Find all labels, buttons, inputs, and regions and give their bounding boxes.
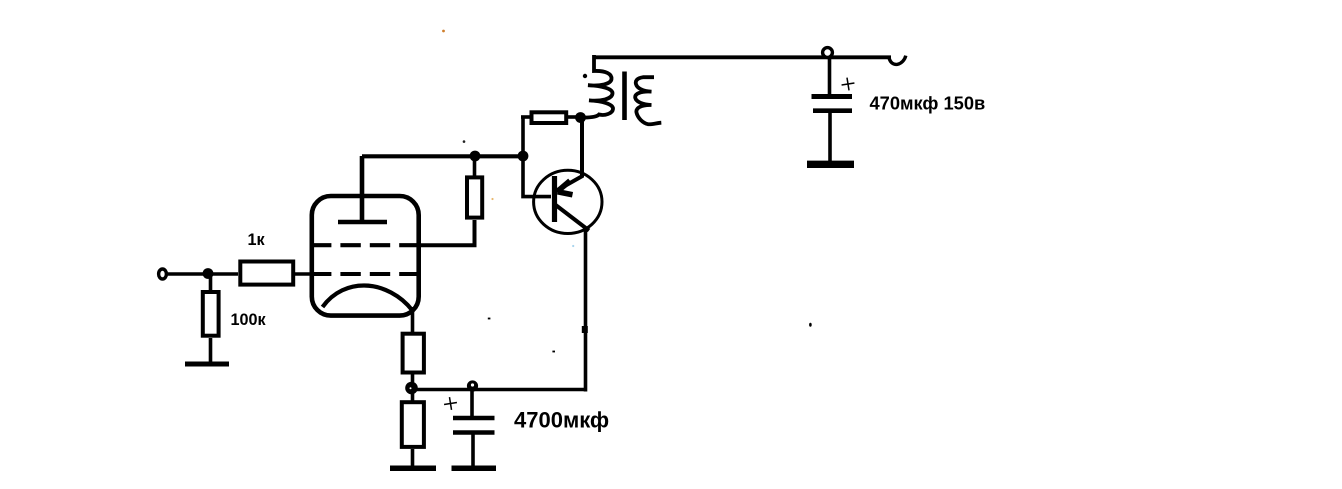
resistor R2 100k — [203, 292, 219, 336]
wire node C down to base — [523, 154, 551, 197]
collector wire blob — [582, 326, 588, 333]
node A (input junction) — [203, 268, 214, 279]
wire node A down to R2 — [209, 274, 213, 291]
capacitor C1 top plate — [812, 94, 853, 99]
speck mid — [463, 140, 466, 143]
wire C2 to ground — [471, 434, 475, 466]
wire node B down to R5 — [473, 156, 477, 176]
transistor Q1 emitter arrow — [559, 181, 571, 191]
svg-text:4700мкф: 4700мкф — [514, 408, 609, 433]
speck faint orange — [491, 198, 493, 200]
transistor Q1 circle — [534, 170, 602, 233]
wire node C up to R6 — [521, 117, 525, 156]
wire R6 right lead — [568, 115, 578, 119]
wire node G down to C1 — [828, 57, 832, 95]
node B (anode junction) — [470, 151, 481, 162]
speck orange top — [442, 30, 445, 33]
wire R4 to ground — [411, 449, 415, 466]
resistor R4 — [402, 402, 424, 447]
wire node F down to C2 — [470, 391, 474, 417]
tube cathode arc — [323, 286, 413, 311]
ground GND1 — [185, 362, 229, 367]
wire anode to node B — [362, 154, 523, 158]
node E (cathode junction) — [405, 382, 418, 395]
wire R1 to tube grid — [295, 272, 314, 276]
wire end hook — [889, 56, 906, 65]
node D (emitter/primary junction) — [575, 112, 586, 123]
wire collector down — [584, 228, 588, 392]
wire R3 to node E — [411, 374, 415, 384]
tube anode plate — [338, 220, 387, 225]
wire C1 to ground — [828, 113, 832, 161]
tube grid 1 (dashed) — [311, 272, 420, 276]
capacitor C2 bottom plate — [453, 430, 495, 434]
transformer T1 core — [622, 72, 627, 121]
wire node E down to R4 — [411, 392, 415, 401]
transistor Q1 collector line — [555, 205, 589, 231]
speck right — [809, 323, 812, 327]
svg-text:1к: 1к — [248, 231, 266, 249]
plus sign C2 — [443, 396, 458, 411]
tube cathode lead — [411, 307, 415, 332]
node C (base branch junction) — [518, 151, 529, 162]
node F (cap C2 junction) — [467, 380, 478, 391]
tube anode lead — [360, 156, 365, 222]
wire input to R1 — [167, 272, 238, 276]
terminal node G (cap C1 tap) — [823, 48, 833, 58]
ground GND2 — [390, 465, 436, 471]
wire R2 to ground — [209, 338, 213, 362]
vacuum tube V1 envelope — [312, 196, 419, 316]
ground GND3 — [452, 465, 497, 471]
speck dash left — [488, 318, 491, 320]
plus sign C1 — [841, 77, 856, 92]
wire R5 bottom to tube grid2 — [418, 220, 475, 245]
resistor R3 (cathode) — [403, 334, 424, 373]
resistor R1 1k — [240, 262, 293, 285]
speck dash mid — [552, 351, 555, 353]
wire cathode junction row — [412, 388, 586, 392]
transistor Q1 base bar — [552, 176, 557, 222]
resistor R5 (screen grid) — [467, 177, 482, 217]
svg-text:470мкф 150в: 470мкф 150в — [870, 92, 986, 113]
resistor R6 (bias) — [532, 112, 567, 123]
speck faint blue — [572, 245, 574, 247]
tube grid 2 (dashed) — [311, 243, 420, 247]
wire top rail — [594, 55, 891, 59]
transformer T1 primary winding — [583, 55, 613, 118]
capacitor C1 bottom plate — [813, 108, 852, 113]
wire primary tail to node D — [578, 116, 585, 120]
input terminal J1 — [159, 269, 167, 279]
ground GND4 — [807, 161, 854, 168]
capacitor C2 top plate — [453, 416, 495, 420]
svg-text:100к: 100к — [231, 311, 267, 329]
transformer T1 secondary winding — [635, 77, 661, 124]
speck near transformer — [583, 74, 587, 78]
wire R6 left lead — [521, 115, 530, 119]
transistor Q1 emitter line — [555, 114, 582, 192]
